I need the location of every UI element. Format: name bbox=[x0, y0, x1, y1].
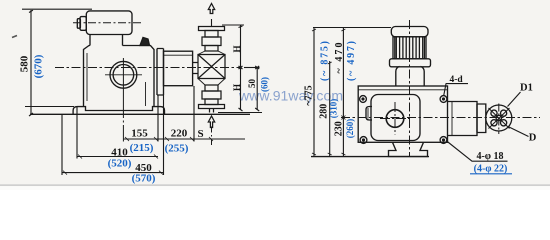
svg-text:(310): (310) bbox=[329, 99, 339, 119]
svg-text:(570): (570) bbox=[132, 173, 156, 185]
svg-text:S: S bbox=[197, 128, 203, 140]
svg-text:220: 220 bbox=[171, 128, 188, 140]
svg-text:4-φ 18: 4-φ 18 bbox=[476, 151, 503, 162]
svg-text:(60): (60) bbox=[259, 77, 269, 92]
svg-text:230: 230 bbox=[333, 121, 344, 136]
svg-text:155: 155 bbox=[131, 128, 148, 140]
svg-text:~ 470: ~ 470 bbox=[334, 43, 345, 74]
svg-text:580: 580 bbox=[18, 55, 30, 72]
svg-text:(4-φ 22): (4-φ 22) bbox=[474, 164, 508, 175]
svg-text:D1: D1 bbox=[520, 83, 533, 94]
svg-text:(215): (215) bbox=[130, 142, 154, 154]
svg-text:50: 50 bbox=[247, 79, 257, 89]
svg-text:D: D bbox=[529, 133, 537, 144]
svg-text:H: H bbox=[232, 45, 242, 52]
svg-text:www.91way.com: www.91way.com bbox=[238, 88, 343, 104]
svg-text:(670): (670) bbox=[32, 54, 44, 78]
svg-text:(~ 497): (~ 497) bbox=[346, 41, 357, 81]
svg-text:(260): (260) bbox=[345, 119, 355, 139]
svg-text:(520): (520) bbox=[108, 158, 132, 170]
svg-text:H: H bbox=[232, 84, 242, 91]
svg-text:4-d: 4-d bbox=[450, 75, 464, 85]
svg-text:~775: ~775 bbox=[304, 85, 315, 105]
svg-text:(~ 875): (~ 875) bbox=[319, 41, 330, 81]
svg-text:(255): (255) bbox=[165, 143, 189, 155]
